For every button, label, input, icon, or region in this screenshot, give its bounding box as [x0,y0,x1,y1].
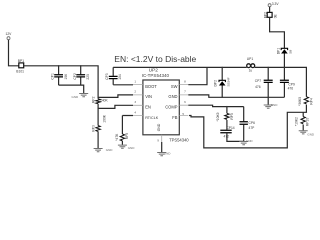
capacitor CP14 (comp) [220,126,243,141]
pin stub bottom pad (pin 9) [161,135,163,142]
svg-text:104: 104 [118,74,122,80]
svg-text:RP4: RP4 [309,98,313,105]
ground (output caps) [264,103,279,108]
wire VIN tap [98,95,133,98]
svg-text:COMP: COMP [165,105,178,110]
wire input rail B101 to corner [24,66,98,99]
ground (input caps) [72,94,89,100]
wire SW rail CP3 to inductor [113,66,247,68]
svg-text:CP6: CP6 [249,121,256,125]
pin stubs right (pins 5-8) [179,85,188,116]
capacitor CP7 [255,67,273,97]
svg-text:RP3: RP3 [91,125,95,132]
wire COMP pin to network [188,105,243,106]
svg-text:3: 3 [134,100,136,104]
svg-text:2: 2 [134,90,136,94]
svg-text:12V: 12V [6,32,13,36]
svg-text:GND: GND [246,139,254,143]
svg-text:EN: EN [145,105,151,110]
resistor RP2 [92,96,109,103]
wire RP2 to EN node [97,104,99,126]
svg-text:VIN: VIN [145,94,152,99]
svg-text:GND: GND [307,133,315,137]
wire EN tap [98,105,133,108]
resistor RP4 (FB upper) [298,97,313,113]
wire CP3 bottom to BOOT pin [113,84,133,86]
svg-text:9: 9 [157,139,159,143]
schottky diode DP2 [213,67,230,97]
svg-text:RP5: RP5 [230,113,234,120]
wire output gnd drop [267,97,269,104]
capacitor CP6 (comp) [240,107,256,142]
svg-text:BP1: BP1 [18,59,24,63]
svg-text:5: 5 [182,112,184,116]
svg-text:UP1: UP1 [247,57,254,61]
svg-text:*10K2: *10K2 [294,117,298,126]
svg-text:GND: GND [157,123,161,131]
capacitor CP9 [280,67,295,97]
wire 12V port to input rail [9,40,19,66]
resistor RP9 (RT/CLK) [115,116,133,145]
svg-text:GND: GND [128,146,136,150]
wire SW pin to rail [188,67,207,84]
svg-text:GND: GND [72,95,80,99]
wire IC pad to ground [161,142,163,152]
svg-text:IC-TPS54340: IC-TPS54340 [142,73,170,78]
svg-text:476: 476 [288,86,294,90]
svg-text:CP1: CP1 [50,73,54,80]
svg-text:240K: 240K [100,98,109,102]
svg-text:GND: GND [164,152,172,156]
svg-text:SB: SB [289,50,293,54]
ground (RP9) [118,145,135,150]
port 12V [6,32,13,40]
svg-text:3.3V: 3.3V [272,2,280,6]
wire FB pin route [189,112,306,148]
wire 3.3V port to bead [269,7,271,13]
svg-text:RP10: RP10 [306,118,310,126]
inductor UP1 [247,57,255,73]
IC UP2 TPS54340 [133,68,189,143]
capacitor CP1 [50,66,68,85]
port 3.3V [268,2,279,7]
svg-text:CP3: CP3 [105,73,109,80]
schottky diode DP1 [277,48,293,68]
ground (comp network) [239,139,253,145]
ferrite bead BP2 [264,12,278,18]
svg-text:4: 4 [134,110,136,114]
svg-text:CP7: CP7 [255,79,262,83]
svg-text:47P: 47P [249,126,256,130]
svg-text:RT/CLK: RT/CLK [145,116,159,120]
svg-text:100K: 100K [102,114,106,123]
svg-text:BOOT: BOOT [145,84,157,89]
junction dots [58,65,307,113]
resistor RP3 [91,114,106,131]
svg-text:SS34F: SS34F [226,77,230,86]
svg-text:GND: GND [168,94,177,99]
svg-text:*10K9: *10K9 [216,112,220,121]
svg-text:BP2: BP2 [264,12,268,18]
svg-text:476: 476 [255,85,261,89]
resistor RP10 (FB lower) [294,112,309,130]
svg-text:1u: 1u [249,69,253,73]
wire RP3 to ground [97,131,99,148]
wire output rail [255,67,307,96]
svg-text:EN: <1.2V to Dis-able: EN: <1.2V to Dis-able [114,54,196,64]
ground (FB divider) [299,131,315,137]
wire input caps bottom to ground [59,85,84,93]
svg-text:8: 8 [184,79,186,83]
svg-text:RP2: RP2 [92,96,96,103]
svg-text:DP1: DP1 [277,48,281,55]
ground (RP3) [94,148,114,152]
pin stubs left (pins 1-4) [133,85,143,116]
ground (IC pad) [157,152,171,156]
wire GND pin7 rail [188,95,284,97]
svg-text:RP9: RP9 [125,133,129,140]
svg-text:106: 106 [64,74,68,80]
resistor RP5 (comp) [216,107,234,130]
svg-text:225: 225 [86,74,90,80]
svg-text:GND: GND [106,148,114,152]
svg-text:SW: SW [171,84,178,89]
svg-text:CP14: CP14 [226,126,234,130]
svg-text:FB: FB [172,115,178,120]
capacitor CP3 [105,67,122,84]
svg-text:1: 1 [134,79,136,83]
svg-text:6: 6 [184,100,186,104]
svg-text:TPS54340: TPS54340 [169,138,189,143]
capacitor CP2 [73,66,90,85]
svg-text:7: 7 [184,90,186,94]
svg-text:B101: B101 [16,69,24,73]
ferrite bead B101 [16,59,24,74]
wire BP2 to diode DP1 [270,17,285,48]
svg-text:*36K5: *36K5 [298,97,302,106]
svg-text:DP2: DP2 [213,80,217,87]
svg-text:CP2: CP2 [73,73,77,80]
svg-text:GND: GND [271,103,279,107]
svg-text:*47K: *47K [115,133,119,141]
